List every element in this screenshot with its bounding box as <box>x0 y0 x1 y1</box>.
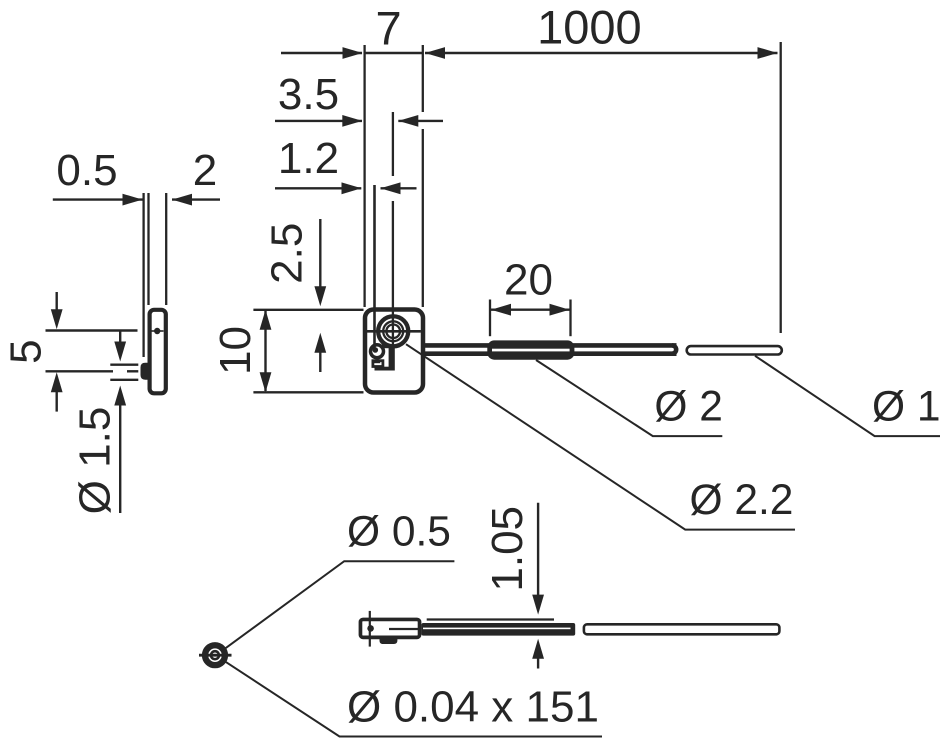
extension line head bottom y=392.3 <box>253 391 363 393</box>
fiber cable upper edge <box>424 343 677 348</box>
dim 5 upper reference line (lens center extended) <box>46 329 138 331</box>
dim O1.5 upper arrow <box>119 332 121 346</box>
dim line 7 / 1000 <box>281 52 362 54</box>
side view lens center line <box>151 330 164 332</box>
svg-text:7: 7 <box>376 2 402 55</box>
fiber cable lower edge <box>424 351 677 356</box>
emitter target symbol horizontal line <box>199 654 232 657</box>
leader O2 <box>536 360 722 436</box>
dim O1.5 extension lines <box>110 364 138 366</box>
svg-text:Ø 1.5: Ø 1.5 <box>71 407 120 515</box>
side view lens dot <box>154 328 160 334</box>
extension line lens center x=392.9 (with gap at 1.2 dim) <box>392 112 394 176</box>
extension line head top y=309.8 <box>253 309 363 311</box>
svg-text:Ø 0.5: Ø 0.5 <box>347 509 451 556</box>
dim 2.5 upper arrow <box>319 219 321 289</box>
svg-text:3.5: 3.5 <box>278 70 339 119</box>
dim 1.05 upper arrow <box>537 503 539 597</box>
bottom view lens dot <box>367 625 374 632</box>
dim 1.05 lower arrow <box>532 639 544 659</box>
leader O2.2 <box>406 344 795 529</box>
dim 20 extension lines <box>489 300 491 337</box>
dim line 1.2 <box>275 187 361 189</box>
fiber clamp top band <box>382 344 390 348</box>
dim 10 double arrow <box>264 311 266 391</box>
dim 5 lower arrow <box>51 372 63 392</box>
extension line fiber end x=780.7 <box>780 42 782 333</box>
fiber tip O1 bar <box>687 346 782 354</box>
emitter target symbol outer ring <box>205 645 225 665</box>
bottom view fiber segment 1 (filled) <box>421 623 575 636</box>
fiber clamp bottom band <box>375 367 391 371</box>
side view fiber bump (filled) <box>141 363 151 380</box>
dim 5 lower reference line segments <box>46 370 114 372</box>
bottom view thin strip line <box>427 618 554 620</box>
dim line 0.5 / 2 <box>53 198 143 200</box>
emitter target symbol inner ring <box>211 651 219 659</box>
leader O0.04 x 151 <box>226 662 602 737</box>
svg-text:2: 2 <box>193 146 217 195</box>
dim 2.5 lower arrow <box>314 333 326 353</box>
dim 20 line with outward arrows <box>491 309 570 311</box>
extension line sheet left face x=143.6 <box>142 193 144 357</box>
fiber dot in hole <box>373 347 379 353</box>
fiber cable end cap <box>672 345 676 353</box>
dim O1.5 lower arrow <box>114 386 126 406</box>
svg-text:1000: 1000 <box>537 1 642 54</box>
extension line sheet right face x=148.5 <box>147 193 149 305</box>
side view body outline <box>150 310 166 394</box>
extension line head right x=422.8 (with gap at 3.5 dim) <box>422 45 424 112</box>
svg-text:Ø 1: Ø 1 <box>872 384 940 431</box>
svg-text:1.2: 1.2 <box>278 134 339 183</box>
svg-text:5: 5 <box>2 339 51 363</box>
lens inner ring <box>386 325 400 339</box>
bottom view fiber segment 2 (outlined) <box>584 624 780 634</box>
svg-text:1.05: 1.05 <box>483 506 532 592</box>
dim line 3.5 <box>275 120 362 122</box>
svg-text:20: 20 <box>504 256 553 305</box>
extension line body right x=166.2 <box>165 193 167 305</box>
fiber clamp vertical bar (filled) <box>389 345 395 371</box>
bottom view lens axis line <box>369 611 371 647</box>
protective sleeve (filled) <box>487 340 574 359</box>
lens horizontal center line <box>367 330 421 333</box>
fiber hole ring <box>371 345 384 358</box>
sensor head front view body <box>365 310 423 393</box>
lens outer ring <box>378 316 408 346</box>
extension line hole center x=374.7 <box>373 185 376 349</box>
lens middle ring <box>383 321 403 341</box>
leader O1 <box>755 356 940 436</box>
svg-text:10: 10 <box>211 326 260 375</box>
clamp screw box <box>373 361 383 367</box>
bottom view inner fiber line <box>389 628 420 630</box>
bottom view body outline <box>360 619 419 637</box>
svg-text:2.5: 2.5 <box>263 223 312 284</box>
dim 5 upper arrow <box>56 292 58 312</box>
leader O0.5 <box>225 561 454 648</box>
svg-text:Ø 2: Ø 2 <box>654 384 723 431</box>
svg-text:Ø 2.2: Ø 2.2 <box>690 477 794 524</box>
svg-text:Ø 0.04 x 151: Ø 0.04 x 151 <box>347 683 599 732</box>
extension line head left x=364.6 <box>363 45 365 307</box>
svg-text:0.5: 0.5 <box>56 146 117 195</box>
bottom view bump (filled) <box>380 637 398 644</box>
